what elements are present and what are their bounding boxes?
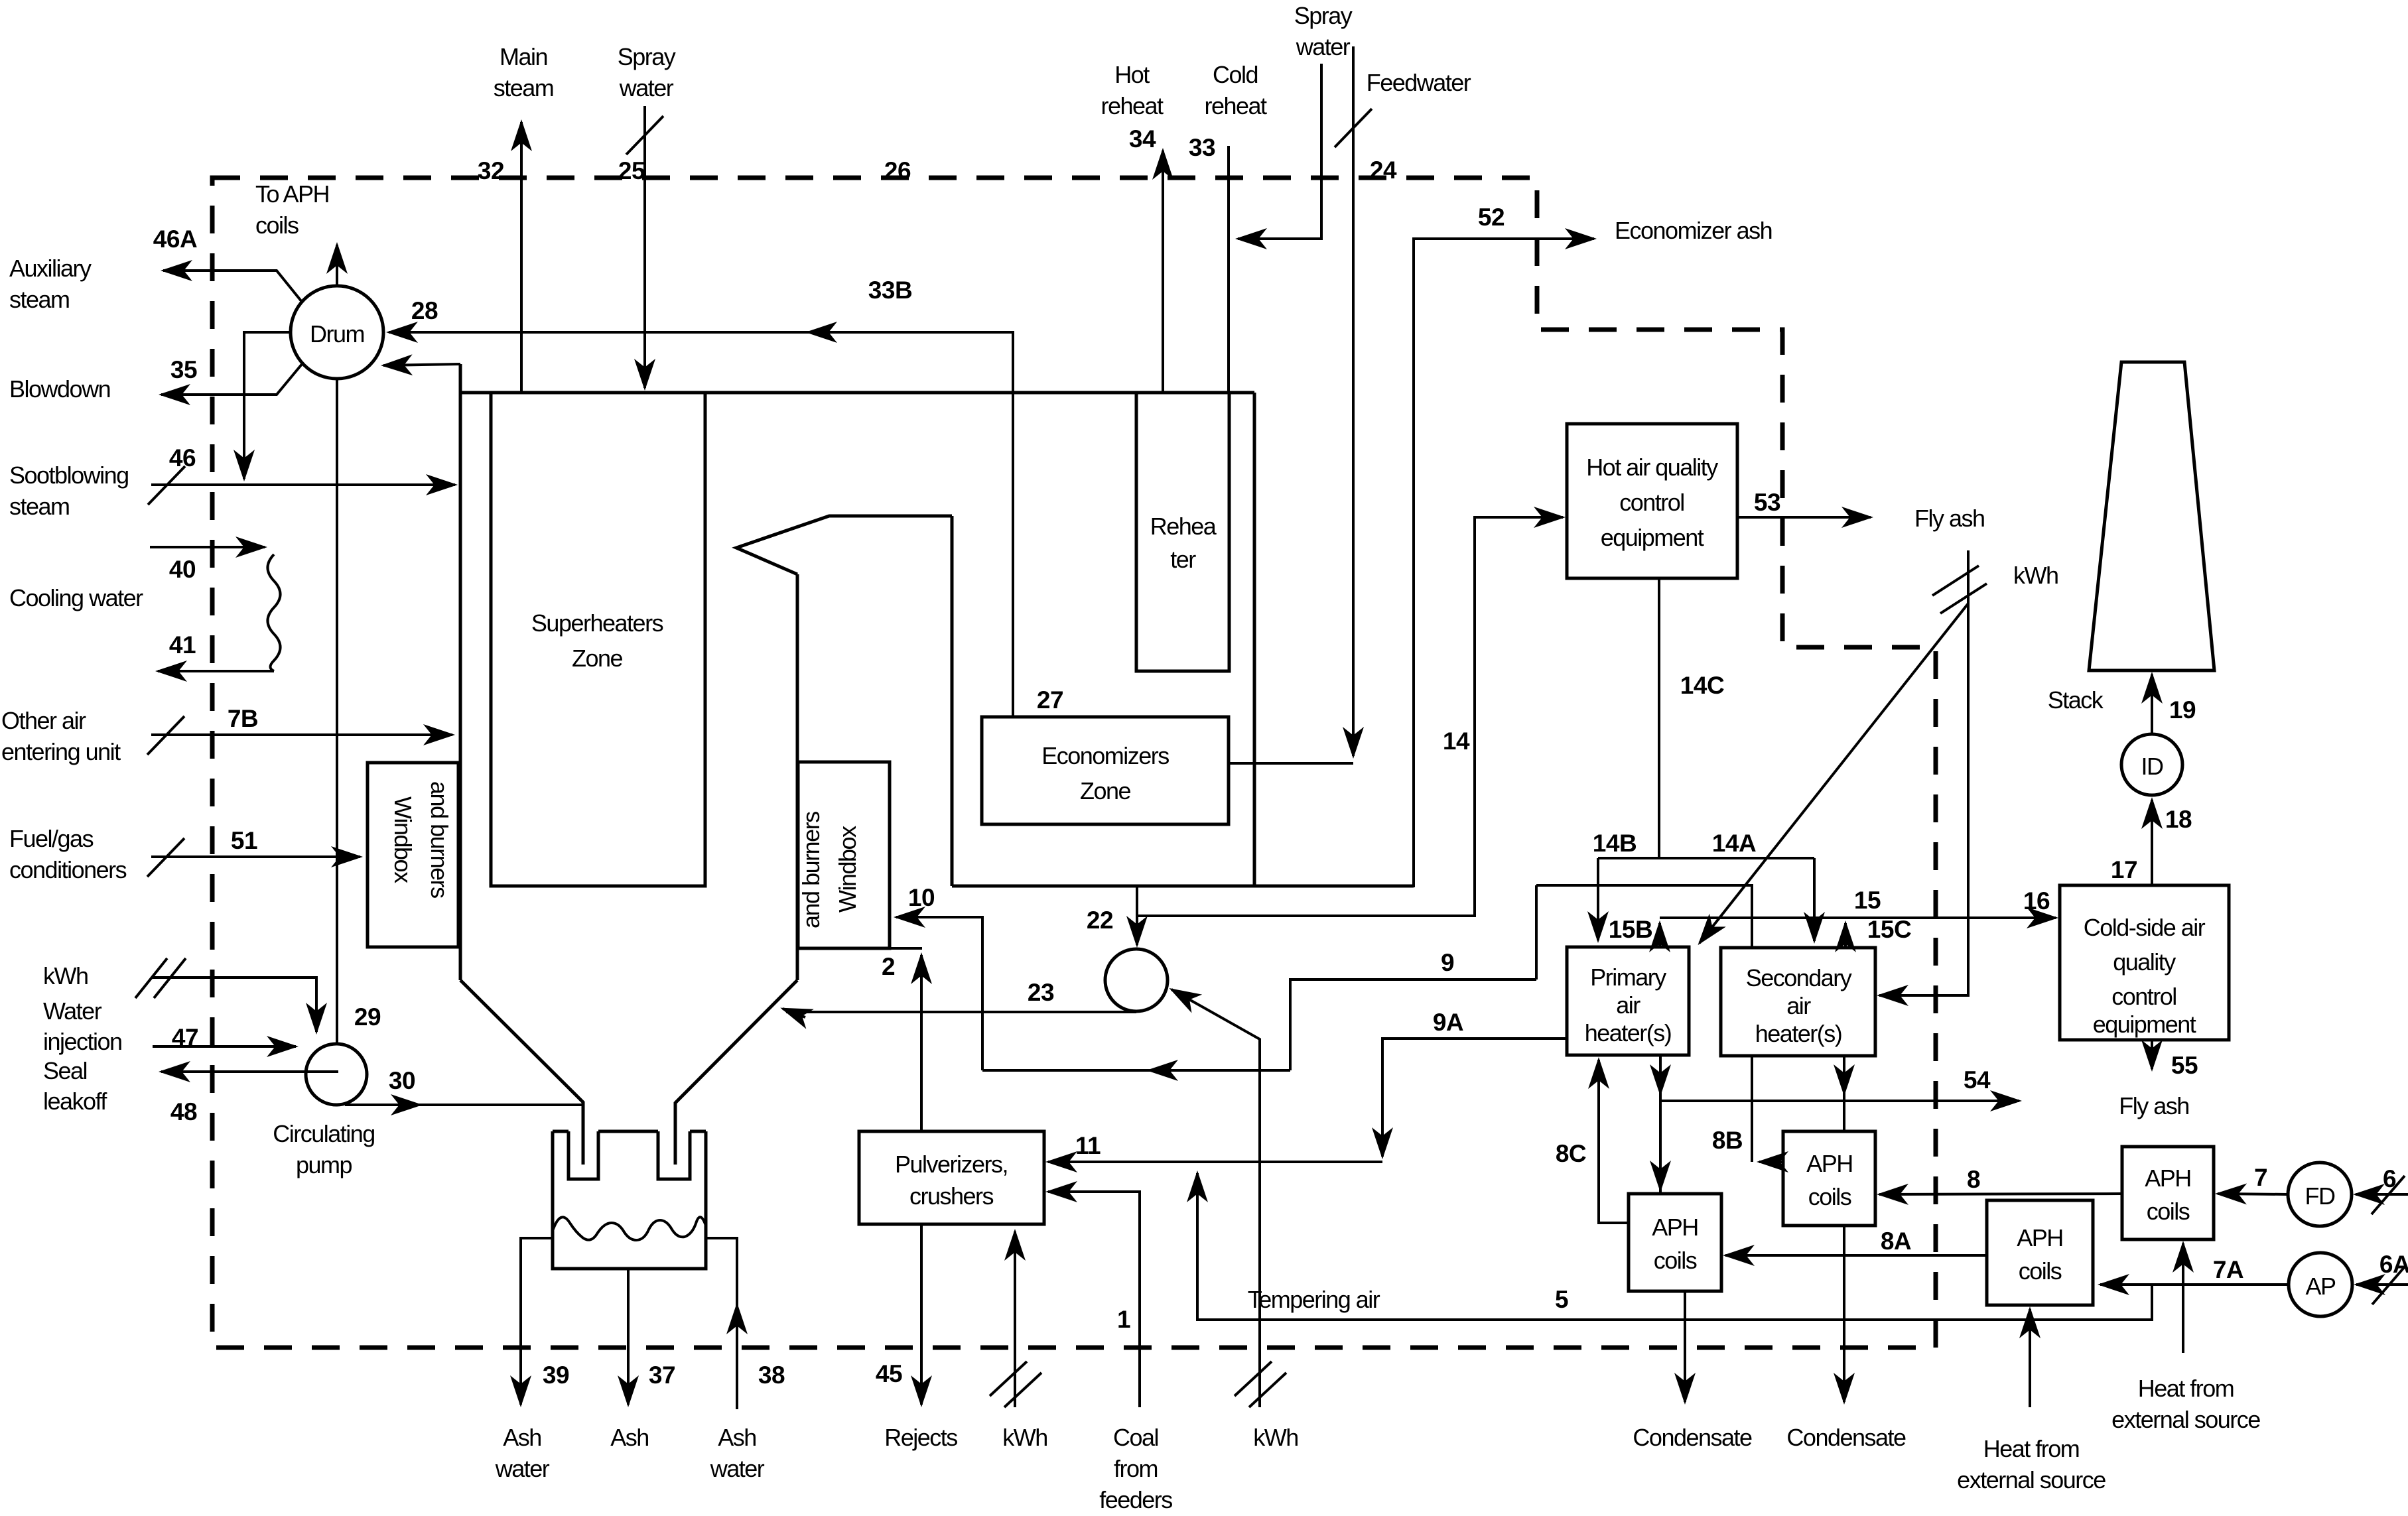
wire economizer ash 52 bbox=[1414, 239, 1594, 887]
wire heat from external source to ext APH coils bbox=[2029, 1309, 2031, 1407]
svg-text:leakoff: leakoff bbox=[43, 1088, 107, 1115]
svg-text:Spray: Spray bbox=[1294, 2, 1353, 29]
svg-text:control: control bbox=[2111, 983, 2176, 1010]
svg-text:water: water bbox=[495, 1455, 550, 1482]
wire pump discharge 30 to hopper bbox=[345, 1104, 583, 1106]
wire fuel/gas conditioners 51 bbox=[151, 855, 360, 858]
circulating pump bbox=[273, 1044, 375, 1178]
svg-text:14A: 14A bbox=[1712, 830, 1756, 857]
APH coils box (external heat / AP side) bbox=[1987, 1200, 2093, 1305]
svg-text:Zone: Zone bbox=[1080, 777, 1131, 804]
svg-text:heater(s): heater(s) bbox=[1585, 1019, 1672, 1046]
wire air 7 FD fan to APH coils bbox=[2218, 1194, 2288, 1194]
svg-text:Fuel/gas: Fuel/gas bbox=[9, 825, 94, 852]
svg-text:water: water bbox=[619, 74, 674, 101]
svg-text:28: 28 bbox=[411, 297, 438, 324]
wire rejects 45 bbox=[920, 1224, 923, 1405]
svg-text:Rehea: Rehea bbox=[1150, 513, 1217, 540]
wire gas 14C from hot AQC bbox=[1658, 578, 1660, 858]
svg-text:53: 53 bbox=[1754, 489, 1780, 516]
drum bbox=[291, 286, 383, 379]
wire air 6 into FD fan bbox=[2356, 1193, 2408, 1196]
svg-text:steam: steam bbox=[9, 286, 70, 313]
reheater box bbox=[1136, 393, 1229, 671]
svg-text:37: 37 bbox=[649, 1361, 675, 1389]
svg-text:Heat from: Heat from bbox=[1983, 1435, 2080, 1462]
svg-text:7B: 7B bbox=[228, 705, 258, 732]
svg-text:34: 34 bbox=[1129, 125, 1156, 153]
wire cooling water 41 out bbox=[158, 670, 274, 672]
superheaters zone box bbox=[491, 393, 705, 886]
svg-text:25: 25 bbox=[618, 157, 645, 184]
svg-text:quality: quality bbox=[2113, 948, 2176, 976]
wire water injection 47 bbox=[153, 1045, 296, 1048]
svg-text:coils: coils bbox=[2019, 1257, 2062, 1285]
wire auxiliary steam 46A bbox=[163, 271, 302, 302]
svg-text:steam: steam bbox=[9, 493, 70, 520]
svg-text:26: 26 bbox=[884, 157, 911, 184]
svg-text:15B: 15B bbox=[1609, 916, 1652, 943]
wire riser into drum bbox=[383, 364, 460, 365]
svg-text:11: 11 bbox=[1075, 1132, 1101, 1159]
svg-text:9: 9 bbox=[1441, 949, 1454, 976]
svg-text:conditioners: conditioners bbox=[9, 856, 127, 883]
svg-text:41: 41 bbox=[169, 631, 196, 659]
svg-text:coils: coils bbox=[255, 212, 299, 239]
svg-text:9A: 9A bbox=[1433, 1009, 1463, 1036]
wire air 7A AP fan to ext APH coils bbox=[2100, 1283, 2289, 1286]
svg-text:29: 29 bbox=[354, 1003, 381, 1031]
svg-text:Cold-side air: Cold-side air bbox=[2084, 914, 2206, 941]
svg-text:from: from bbox=[1114, 1455, 1158, 1482]
svg-text:30: 30 bbox=[389, 1067, 415, 1094]
backpass left wall bbox=[951, 516, 954, 886]
FD fan circle bbox=[2288, 1163, 2352, 1226]
svg-text:19: 19 bbox=[2169, 696, 2196, 724]
svg-text:Windbox: Windbox bbox=[834, 826, 861, 913]
svg-text:Pulverizers,: Pulverizers, bbox=[895, 1151, 1008, 1178]
svg-text:Condensate: Condensate bbox=[1633, 1424, 1752, 1451]
svg-text:6A: 6A bbox=[2379, 1251, 2408, 1278]
wire SH spray water 25 bbox=[643, 106, 646, 388]
wire cooling water 40 in with coil bbox=[150, 546, 265, 548]
left windbox and burners box bbox=[368, 763, 458, 947]
wire gas 22 to fan bbox=[1136, 886, 1138, 945]
svg-text:45: 45 bbox=[876, 1360, 902, 1387]
svg-text:18: 18 bbox=[2165, 806, 2192, 833]
svg-text:35: 35 bbox=[170, 356, 197, 383]
svg-text:equipment: equipment bbox=[2093, 1011, 2196, 1038]
wire fly ash 55 from cold AQC bbox=[2151, 1040, 2153, 1069]
svg-text:14B: 14B bbox=[1593, 830, 1637, 857]
wire cold reheat 33 bbox=[1227, 146, 1230, 393]
svg-text:ter: ter bbox=[1170, 546, 1196, 573]
wire hot reheat 34 bbox=[1162, 151, 1164, 393]
wire seal leakoff 48 bbox=[161, 1070, 338, 1073]
svg-text:Feedwater: Feedwater bbox=[1367, 69, 1471, 96]
svg-text:14C: 14C bbox=[1680, 672, 1724, 699]
svg-text:Fly ash: Fly ash bbox=[1914, 505, 1985, 532]
svg-text:Cold: Cold bbox=[1213, 61, 1258, 88]
svg-text:Rejects: Rejects bbox=[884, 1424, 957, 1451]
svg-text:Ash: Ash bbox=[503, 1424, 541, 1451]
svg-text:15C: 15C bbox=[1867, 916, 1911, 943]
wire hot air 15B from PAH bbox=[1658, 923, 1661, 947]
svg-text:and burners: and burners bbox=[426, 781, 453, 898]
svg-text:Hot: Hot bbox=[1114, 61, 1150, 88]
svg-text:Cooling water: Cooling water bbox=[9, 584, 143, 611]
wire feedwater to economizer bbox=[1229, 762, 1353, 765]
svg-text:air: air bbox=[1786, 992, 1811, 1019]
wire to APH coils from drum bbox=[336, 245, 338, 286]
svg-text:APH: APH bbox=[2017, 1224, 2063, 1251]
svg-text:feeders: feeders bbox=[1099, 1486, 1172, 1513]
svg-text:entering unit: entering unit bbox=[1, 738, 121, 765]
right windbox and burners box bbox=[797, 762, 890, 948]
svg-text:Tempering air: Tempering air bbox=[1248, 1286, 1380, 1313]
svg-text:Condensate: Condensate bbox=[1786, 1424, 1906, 1451]
svg-text:47: 47 bbox=[172, 1024, 198, 1051]
wire 15 jog to 9 bbox=[1535, 885, 1538, 979]
wire 1614 run with direction arrow bbox=[982, 1069, 1290, 1072]
ash trough bbox=[553, 1131, 706, 1269]
svg-text:Ash: Ash bbox=[610, 1424, 649, 1451]
backpass bottom line bbox=[952, 885, 1414, 888]
svg-text:Main: Main bbox=[500, 43, 547, 70]
wire kWh to PAH diagonal bbox=[1700, 603, 1968, 943]
wire kWh to SAH bbox=[1879, 550, 1968, 995]
steam generator envelope dashed boundary bbox=[212, 178, 1936, 1348]
wire gas 17 to ID fan bbox=[2151, 800, 2153, 885]
svg-text:external source: external source bbox=[2111, 1406, 2260, 1433]
wire pulverized coal 2 to windbox bbox=[920, 955, 923, 1131]
svg-text:6: 6 bbox=[2383, 1165, 2396, 1192]
windbox bottom extension to node 2 bbox=[890, 947, 922, 950]
backpass right wall bbox=[1253, 393, 1256, 886]
svg-text:coils: coils bbox=[2147, 1198, 2190, 1225]
svg-text:Secondary: Secondary bbox=[1746, 964, 1852, 991]
trough left wing / ash water 39 bbox=[521, 1238, 553, 1405]
svg-text:Blowdown: Blowdown bbox=[9, 375, 110, 403]
wire 28 / 33B economizer outlet to drum bbox=[389, 332, 1013, 717]
wire primary air 9 from splitter bbox=[1290, 979, 1536, 1070]
svg-text:Circulating: Circulating bbox=[273, 1120, 375, 1147]
svg-text:water: water bbox=[1296, 33, 1351, 60]
svg-text:1: 1 bbox=[1117, 1306, 1130, 1333]
svg-text:Auxiliary: Auxiliary bbox=[9, 255, 92, 282]
wire gas 14 to hot AQC bbox=[1137, 517, 1563, 916]
svg-text:52: 52 bbox=[1478, 204, 1505, 231]
svg-text:Heat from: Heat from bbox=[2138, 1375, 2234, 1402]
svg-text:external source: external source bbox=[1957, 1466, 2106, 1493]
svg-text:Economizer ash: Economizer ash bbox=[1615, 217, 1772, 244]
svg-text:33: 33 bbox=[1189, 134, 1215, 161]
svg-text:air: air bbox=[1616, 991, 1640, 1019]
wire gas 54 out bbox=[1660, 1100, 2019, 1102]
wire tempering air 5 bbox=[1197, 1173, 2152, 1320]
wire SAH gas down to 54 bbox=[1843, 1056, 1845, 1131]
svg-text:16: 16 bbox=[2023, 887, 2050, 915]
svg-text:46: 46 bbox=[169, 444, 196, 472]
svg-text:55: 55 bbox=[2171, 1052, 2198, 1079]
svg-text:steam: steam bbox=[494, 74, 554, 101]
svg-text:Fly ash: Fly ash bbox=[2119, 1092, 2189, 1119]
wire blowdown 35 bbox=[161, 363, 302, 395]
svg-text:reheat: reheat bbox=[1204, 92, 1267, 119]
APH coils box (primary air side) bbox=[1629, 1194, 1721, 1291]
svg-text:23: 23 bbox=[1028, 979, 1054, 1006]
svg-text:coils: coils bbox=[1808, 1183, 1851, 1210]
wire condensate from SA APH coils bbox=[1843, 1226, 1845, 1402]
wire condensate from PA APH coils bbox=[1684, 1291, 1686, 1402]
wire hot air 15C from SAH bbox=[1844, 923, 1847, 948]
wire air 8 from FD APH coils to SA APH coils bbox=[1879, 1194, 2122, 1194]
wire air 8C to PAH bbox=[1599, 1060, 1629, 1223]
svg-text:17: 17 bbox=[2111, 856, 2137, 883]
economizers zone box bbox=[982, 717, 1229, 824]
svg-text:33B: 33B bbox=[868, 277, 912, 304]
svg-text:8: 8 bbox=[1967, 1166, 1980, 1193]
svg-text:2: 2 bbox=[882, 953, 895, 980]
ash trough water line bbox=[553, 1217, 706, 1240]
furnace roof line bbox=[460, 391, 1254, 395]
svg-text:Ash: Ash bbox=[718, 1424, 756, 1451]
svg-text:kWh: kWh bbox=[2013, 562, 2058, 589]
svg-text:24: 24 bbox=[1370, 157, 1397, 184]
svg-text:FD: FD bbox=[2305, 1182, 2335, 1210]
svg-text:kWh: kWh bbox=[1253, 1424, 1298, 1451]
svg-text:Other air: Other air bbox=[1, 707, 86, 734]
svg-text:40: 40 bbox=[169, 556, 196, 583]
furnace right wall bbox=[796, 574, 799, 980]
wire hot primary air 10 into windbox bbox=[896, 917, 982, 1070]
furnace left wall bbox=[459, 364, 462, 980]
secondary air heater(s) box bbox=[1721, 948, 1875, 1056]
wire sootblowing steam 46 bbox=[151, 483, 455, 486]
svg-text:48: 48 bbox=[170, 1098, 197, 1125]
svg-text:27: 27 bbox=[1037, 686, 1063, 714]
svg-text:APH: APH bbox=[1806, 1150, 1853, 1177]
primary air heater(s) box bbox=[1567, 947, 1689, 1055]
svg-text:8A: 8A bbox=[1881, 1228, 1911, 1255]
svg-text:10: 10 bbox=[908, 884, 935, 911]
ID fan circle bbox=[2121, 734, 2182, 795]
APH coils box (FD side) bbox=[2122, 1147, 2214, 1239]
wire drum to sootblowing node bbox=[244, 332, 291, 479]
svg-text:Coal: Coal bbox=[1113, 1424, 1158, 1451]
wire PAH gas down to APH coils bbox=[1659, 1055, 1662, 1194]
svg-text:control: control bbox=[1619, 489, 1684, 516]
svg-text:injection: injection bbox=[43, 1028, 122, 1055]
svg-text:Hot air quality: Hot air quality bbox=[1586, 454, 1718, 481]
furnace hopper right slope bbox=[675, 980, 797, 1165]
stack bbox=[2048, 362, 2214, 714]
svg-text:equipment: equipment bbox=[1601, 524, 1704, 551]
svg-text:39: 39 bbox=[543, 1361, 569, 1389]
wire air 8A from ext APH coils to PA APH coils bbox=[1725, 1254, 1987, 1257]
svg-text:Seal: Seal bbox=[43, 1057, 87, 1084]
svg-text:and burners: and burners bbox=[797, 812, 825, 928]
svg-text:ID: ID bbox=[2141, 753, 2164, 780]
svg-text:38: 38 bbox=[758, 1361, 785, 1389]
svg-text:Water: Water bbox=[43, 997, 102, 1025]
svg-text:7A: 7A bbox=[2213, 1256, 2243, 1283]
ash water 38 (inflow) bbox=[706, 1238, 737, 1409]
gas recirculation fan circle bbox=[1105, 949, 1168, 1011]
ash 37 bbox=[627, 1269, 630, 1405]
svg-text:14: 14 bbox=[1443, 727, 1470, 755]
hot air quality control equipment box bbox=[1567, 424, 1737, 578]
svg-text:To APH: To APH bbox=[255, 180, 329, 208]
svg-text:Spray: Spray bbox=[618, 43, 676, 70]
svg-text:APH: APH bbox=[1652, 1214, 1698, 1241]
svg-text:Drum: Drum bbox=[310, 320, 364, 347]
svg-text:46A: 46A bbox=[153, 225, 197, 253]
svg-text:heater(s): heater(s) bbox=[1755, 1020, 1842, 1047]
APH coils box (secondary air side) bbox=[1783, 1131, 1875, 1226]
wire kWh to recirc fan bbox=[1171, 989, 1260, 1407]
svg-text:22: 22 bbox=[1087, 907, 1113, 934]
wire gas 19 to stack bbox=[2151, 674, 2153, 734]
svg-text:kWh: kWh bbox=[1002, 1424, 1047, 1451]
wire RH spray water 26 bbox=[1238, 64, 1321, 239]
svg-text:Zone: Zone bbox=[572, 645, 623, 672]
svg-text:Sootblowing: Sootblowing bbox=[9, 462, 129, 489]
wire hot PA 9A / 11 to pulverizers bbox=[1382, 1039, 1567, 1157]
AP fan circle bbox=[2289, 1253, 2352, 1316]
wire heat from external source to FD APH coils bbox=[2182, 1243, 2184, 1353]
svg-text:Primary: Primary bbox=[1590, 964, 1666, 991]
svg-text:Windbox: Windbox bbox=[389, 796, 417, 883]
wire air 8B to SAH bbox=[1751, 1056, 1753, 1162]
svg-text:51: 51 bbox=[231, 827, 257, 854]
wire gas 14A to secondary air heater bbox=[1813, 858, 1816, 941]
pulverizers, crushers box bbox=[859, 1131, 1044, 1224]
svg-text:reheat: reheat bbox=[1101, 92, 1164, 119]
svg-text:7: 7 bbox=[2254, 1164, 2267, 1191]
wire hot air 15 / 16 to cold AQC bbox=[1660, 916, 2056, 919]
furnace hopper left slope bbox=[460, 980, 583, 1165]
svg-text:pump: pump bbox=[296, 1151, 352, 1178]
svg-text:APH: APH bbox=[2145, 1165, 2191, 1192]
svg-text:32: 32 bbox=[478, 157, 504, 184]
svg-text:Economizers: Economizers bbox=[1041, 742, 1169, 769]
svg-text:kWh: kWh bbox=[43, 962, 88, 989]
svg-text:54: 54 bbox=[1964, 1066, 1991, 1094]
wire kWh to pulverizers bbox=[1014, 1232, 1016, 1407]
wire fly ash 53 from hot AQC bbox=[1737, 516, 1871, 519]
wire gas recirc 23 to furnace bbox=[786, 1011, 1136, 1013]
svg-text:water: water bbox=[710, 1455, 765, 1482]
svg-text:coils: coils bbox=[1654, 1247, 1697, 1274]
wire gas 14B to primary air heater bbox=[1597, 858, 1599, 940]
svg-text:Superheaters: Superheaters bbox=[531, 609, 663, 637]
svg-text:AP: AP bbox=[2305, 1273, 2336, 1300]
wire kWh to circulating pump bbox=[153, 978, 316, 1032]
wire drum downcomer bbox=[336, 379, 338, 1044]
wire feedwater 24 bbox=[1352, 46, 1355, 756]
furnace nose bbox=[736, 516, 952, 574]
cold-side air quality control equipment box bbox=[2060, 885, 2229, 1040]
svg-text:crushers: crushers bbox=[909, 1182, 994, 1210]
svg-text:Stack: Stack bbox=[2048, 686, 2104, 714]
svg-text:15: 15 bbox=[1854, 887, 1881, 914]
svg-text:8B: 8B bbox=[1712, 1127, 1743, 1154]
svg-text:8C: 8C bbox=[1556, 1140, 1586, 1167]
wire air 6A into AP fan bbox=[2356, 1283, 2408, 1286]
wire coal from feeders 1 bbox=[1048, 1192, 1140, 1407]
svg-text:5: 5 bbox=[1555, 1286, 1568, 1313]
wire other air entering unit 7B bbox=[151, 733, 452, 736]
wire main steam 32 bbox=[520, 122, 523, 393]
